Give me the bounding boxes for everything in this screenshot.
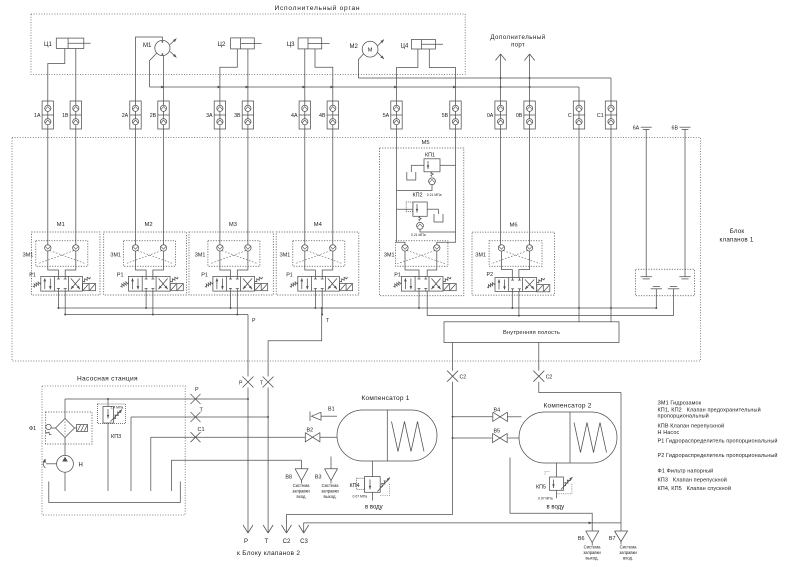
- svg-text:КП4: КП4: [349, 483, 359, 489]
- svg-text:В1: В1: [328, 407, 335, 413]
- svg-text:Н: Н: [79, 462, 83, 468]
- svg-text:Р1 Гидрораспределитель пропорц: Р1 Гидрораспределитель пропорциональный: [658, 437, 778, 444]
- svg-text:Ц2: Ц2: [218, 42, 226, 48]
- svg-text:ЗМ1: ЗМ1: [110, 252, 121, 258]
- svg-text:В2: В2: [307, 427, 314, 433]
- svg-text:клапанов 1: клапанов 1: [720, 237, 754, 244]
- svg-text:2А: 2А: [122, 113, 129, 119]
- svg-text:4А: 4А: [291, 113, 298, 119]
- svg-text:5А: 5А: [383, 113, 390, 119]
- svg-text:М: М: [368, 47, 373, 53]
- svg-text:5В: 5В: [442, 113, 449, 119]
- svg-text:М2: М2: [145, 222, 153, 228]
- svg-text:вход: вход: [297, 494, 307, 499]
- svg-text:Дополнительный: Дополнительный: [490, 34, 545, 41]
- svg-text:М5: М5: [422, 140, 430, 146]
- svg-text:ЗМ1: ЗМ1: [280, 252, 291, 258]
- svg-text:В3: В3: [315, 475, 322, 481]
- svg-text:М1: М1: [57, 222, 65, 228]
- svg-text:Ф1: Ф1: [29, 426, 36, 432]
- svg-text:Н Насос: Н Насос: [658, 430, 680, 436]
- svg-text:Система: Система: [584, 545, 602, 550]
- svg-text:Р1: Р1: [201, 273, 208, 279]
- svg-text:С2: С2: [546, 374, 553, 380]
- svg-text:ЗМ1: ЗМ1: [23, 252, 34, 258]
- svg-text:заправки: заправки: [619, 550, 637, 555]
- svg-text:М1: М1: [143, 43, 152, 49]
- svg-text:Насосная станция: Насосная станция: [77, 376, 138, 383]
- svg-text:С1: С1: [198, 427, 205, 433]
- svg-text:М3: М3: [229, 222, 237, 228]
- svg-text:заправки: заправки: [321, 489, 339, 494]
- svg-text:В7: В7: [609, 536, 616, 542]
- svg-text:Система: Система: [620, 545, 638, 550]
- svg-text:0.21 МПа: 0.21 МПа: [427, 193, 442, 197]
- svg-text:С1: С1: [597, 113, 604, 119]
- svg-text:В8: В8: [285, 475, 292, 481]
- svg-text:Система: Система: [322, 483, 340, 488]
- svg-text:С2: С2: [460, 374, 467, 380]
- svg-text:2В: 2В: [150, 113, 157, 119]
- svg-text:вход.: вход.: [623, 556, 633, 561]
- svg-text:к Блоку клапанов 2: к Блоку клапанов 2: [237, 550, 300, 557]
- svg-text:0В: 0В: [516, 113, 523, 119]
- svg-text:6В: 6В: [672, 125, 679, 131]
- svg-text:выход.: выход.: [323, 494, 336, 499]
- svg-text:0.07 МПа: 0.07 МПа: [353, 495, 368, 499]
- svg-text:КП3: КП3: [111, 434, 121, 440]
- svg-text:Р: Р: [239, 381, 243, 387]
- svg-text:Р2 Гидрораспределитель пропорц: Р2 Гидрораспределитель пропорциональный: [658, 452, 778, 459]
- svg-text:С: С: [568, 113, 572, 119]
- svg-text:1В: 1В: [62, 113, 69, 119]
- svg-text:М4: М4: [314, 222, 323, 228]
- svg-text:КП1, КП2 Клапан предохраните: КП1, КП2 Клапан предохранительный: [658, 407, 761, 414]
- svg-text:Р1: Р1: [286, 273, 293, 279]
- svg-text:4В: 4В: [319, 113, 326, 119]
- svg-text:ЗМ1: ЗМ1: [384, 252, 395, 258]
- svg-text:Блок: Блок: [730, 228, 745, 235]
- svg-text:Р1: Р1: [394, 273, 401, 279]
- svg-text:С3: С3: [300, 539, 308, 545]
- svg-text:0.21 МПа: 0.21 МПа: [411, 233, 426, 237]
- svg-text:заправки: заправки: [292, 489, 310, 494]
- svg-text:3А: 3А: [206, 113, 213, 119]
- svg-text:КП1: КП1: [425, 153, 435, 159]
- svg-text:ЗМ1: ЗМ1: [475, 252, 486, 258]
- svg-text:3В: 3В: [234, 113, 241, 119]
- svg-text:КП4, КП5 Клапан спускной: КП4, КП5 Клапан спускной: [658, 485, 732, 492]
- svg-text:ЗМ1: ЗМ1: [195, 252, 206, 258]
- svg-text:КПВ Клапан перепускной: КПВ Клапан перепускной: [658, 423, 725, 430]
- svg-text:КП3 Клапан перепускной: КП3 Клапан перепускной: [658, 477, 727, 484]
- svg-text:заправки: заправки: [583, 550, 601, 555]
- svg-text:Компенсатор 2: Компенсатор 2: [544, 403, 592, 410]
- svg-text:Р2: Р2: [487, 272, 494, 278]
- svg-text:Р1: Р1: [117, 273, 124, 279]
- svg-text:Р: Р: [195, 387, 199, 393]
- svg-text:Компенсатор 1: Компенсатор 1: [362, 395, 410, 402]
- svg-text:Система: Система: [293, 483, 311, 488]
- svg-text:Р: Р: [252, 318, 256, 324]
- svg-text:в воду: в воду: [547, 505, 565, 511]
- svg-text:порт: порт: [511, 42, 525, 49]
- svg-text:Ц1: Ц1: [44, 42, 52, 48]
- svg-text:0А: 0А: [487, 113, 494, 119]
- svg-text:0.07 МПа: 0.07 МПа: [538, 497, 553, 501]
- svg-text:Ф1 Фильтр напорный: Ф1 Фильтр напорный: [658, 467, 714, 474]
- svg-text:КП5: КП5: [536, 484, 546, 490]
- svg-text:Внутренняя полость: Внутренняя полость: [503, 330, 560, 336]
- svg-text:Т: Т: [265, 539, 269, 545]
- svg-text:1А: 1А: [34, 113, 41, 119]
- svg-text:Р: Р: [244, 539, 248, 545]
- svg-text:М6: М6: [510, 222, 518, 228]
- svg-text:С2: С2: [283, 539, 291, 545]
- svg-text:выход.: выход.: [585, 556, 598, 561]
- svg-text:В5: В5: [494, 429, 501, 435]
- svg-text:Ц3: Ц3: [287, 42, 295, 48]
- svg-text:КП2: КП2: [413, 193, 423, 199]
- svg-text:пропорциональный: пропорциональный: [658, 413, 709, 420]
- svg-text:Р1: Р1: [29, 273, 36, 279]
- svg-text:в воду: в воду: [365, 505, 383, 511]
- svg-text:6А: 6А: [633, 125, 640, 131]
- svg-text:1.4 МПа: 1.4 МПа: [111, 405, 124, 409]
- svg-text:Ц4: Ц4: [401, 44, 409, 50]
- svg-text:ЗМ1 Гидрозамок: ЗМ1 Гидрозамок: [658, 400, 702, 406]
- svg-text:В6: В6: [578, 536, 585, 542]
- svg-text:В4: В4: [494, 407, 501, 413]
- svg-text:М2: М2: [350, 44, 359, 50]
- svg-text:Исполнительный орган: Исполнительный орган: [275, 4, 361, 12]
